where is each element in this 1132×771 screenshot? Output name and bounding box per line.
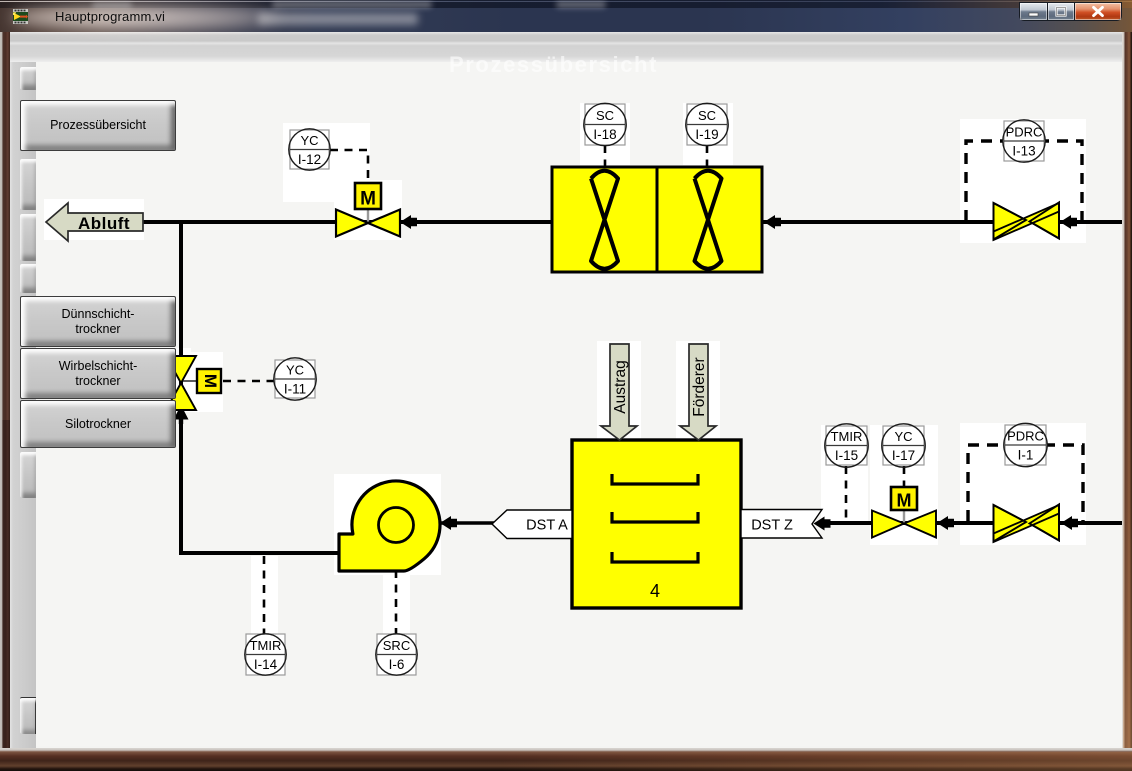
svg-text:M: M: [201, 374, 220, 388]
flag DST Z: [741, 510, 822, 539]
white backing patch M1 and valve V1: [334, 180, 402, 240]
white backing patch PDRC I-13 group: [960, 119, 1086, 243]
instrument SC I-19: [686, 103, 728, 145]
svg-text:I-11: I-11: [284, 382, 306, 397]
arrow Foerderer: [680, 344, 716, 440]
svg-text:I-18: I-18: [593, 127, 616, 142]
white backing patch PDRC I-1 group: [960, 423, 1086, 545]
svg-text:YC: YC: [300, 133, 318, 148]
svg-text:Austrag: Austrag: [612, 360, 629, 413]
LabVIEW VI icon: [13, 9, 28, 24]
svg-text:Förderer: Förderer: [691, 357, 708, 416]
white backing patch SRC I-6 dash: [383, 571, 410, 635]
svg-text:I-17: I-17: [892, 448, 915, 463]
signal dash loop PDRC I-1: [968, 445, 1083, 521]
motor M1: [355, 183, 381, 210]
button Prozessübersicht: [20, 100, 176, 151]
instrument PDRC I-13: [1003, 120, 1045, 162]
button Silotrockner: [20, 400, 176, 448]
instrument YC I-17: [882, 424, 925, 467]
junction arrow at valve V4 outlet: [937, 516, 954, 530]
nav button sliver hidden 3: [20, 214, 36, 261]
toolbar strip: [10, 32, 1122, 62]
grey panel column left: [10, 62, 36, 748]
blower B1: [339, 481, 440, 571]
svg-text:TMIR: TMIR: [250, 638, 282, 653]
button Wirbelschichttrockner: [20, 348, 176, 399]
nav button sliver hidden top: [20, 67, 36, 90]
junction arrow up below valve V3: [174, 405, 189, 424]
wire bottom left pipe: [179, 551, 340, 555]
white backing patch M3 motor left: [191, 352, 223, 412]
arrow Abluft: [46, 203, 143, 241]
svg-text:DST A: DST A: [526, 518, 568, 534]
svg-text:PDRC: PDRC: [1006, 125, 1043, 140]
white backing patch Austrag arrow: [597, 341, 641, 439]
white backing patch SC I-18: [580, 103, 630, 165]
valve V2 top right: [994, 203, 1060, 241]
junction arrow into heat exchanger: [764, 215, 781, 229]
motor link M3: [183, 380, 197, 382]
svg-text:SRC: SRC: [383, 638, 410, 653]
white backing patch left valve V3: [174, 348, 191, 412]
wire top pipe right segment: [760, 220, 1122, 224]
white backing patch TMIR I-15 column: [821, 425, 868, 522]
instrument PDRC I-1: [1004, 423, 1047, 466]
svg-text:I-1: I-1: [1018, 448, 1034, 463]
valve V5 bottom right: [994, 505, 1060, 543]
valve V1: [336, 210, 400, 237]
instrument TMIR I-15: [825, 424, 868, 467]
nav button sliver hidden bottom: [20, 697, 36, 734]
dryer T1 body: [572, 440, 741, 608]
signal dash SRC I-6: [395, 570, 398, 634]
junction arrow at valve V5 outlet: [1061, 516, 1078, 530]
svg-text:YC: YC: [286, 363, 304, 378]
svg-text:I-15: I-15: [835, 448, 858, 463]
svg-text:4: 4: [650, 581, 660, 601]
fan rotor symbol right E1: [695, 171, 722, 269]
button Dünnschichttrockner: [20, 296, 176, 347]
arrow Austrag: [601, 344, 637, 440]
signal dash YC I-17 to M2: [903, 466, 906, 486]
white backing patch YC I-12 group: [283, 123, 370, 202]
window control buttons: [1019, 2, 1122, 22]
white backing patch YC I-17 column: [870, 425, 938, 545]
nav button sliver hidden 2: [20, 159, 36, 210]
svg-text:SC: SC: [698, 108, 716, 123]
junction arrow at DST Z flag: [814, 517, 831, 531]
instrument YC I-11: [274, 358, 316, 400]
window borders: [0, 32, 10, 748]
signal dash TMIR I-15: [845, 466, 848, 521]
fan rotor symbol left E1: [591, 171, 618, 269]
svg-text:DST Z: DST Z: [751, 518, 793, 534]
instrument SRC I-6: [376, 634, 417, 675]
instrument YC I-12: [289, 129, 330, 170]
wire top pipe left segment: [143, 220, 554, 224]
svg-text:M: M: [897, 491, 912, 511]
nav button sliver hidden 5: [20, 452, 36, 498]
valve V4: [872, 511, 936, 538]
svg-text:I-19: I-19: [695, 127, 718, 142]
signal dash YC I-12 to M1: [330, 150, 368, 183]
white backing patch Abluft: [44, 199, 144, 240]
junction arrow into blower: [440, 516, 457, 530]
motor M3: [197, 369, 221, 393]
svg-text:I-6: I-6: [389, 657, 405, 672]
junction arrow at valve V1 outlet: [400, 215, 417, 229]
svg-text:SC: SC: [596, 108, 614, 123]
svg-text:I-14: I-14: [254, 657, 278, 672]
signal dash loop PDRC I-13: [966, 141, 1082, 221]
svg-text:PDRC: PDRC: [1007, 429, 1044, 444]
wire left vertical pipe: [179, 220, 183, 555]
svg-text:I-13: I-13: [1012, 144, 1035, 159]
signal dash SC I-19: [706, 145, 709, 166]
valve V3 vertical: [166, 356, 196, 410]
white backing patch Foerderer arrow: [676, 341, 720, 439]
nav button sliver hidden 4: [20, 264, 36, 293]
svg-text:M: M: [360, 189, 376, 210]
instrument TMIR I-14: [245, 634, 286, 675]
signal dash SC I-18: [604, 145, 607, 166]
title bar: [0, 0, 1132, 32]
signal dash M3 to YC I-11: [223, 380, 274, 383]
junction arrow at valve V2 outlet: [1060, 215, 1077, 229]
svg-text:I-12: I-12: [298, 152, 321, 167]
white backing patch SC I-19: [683, 103, 733, 165]
white backing patch blower B1: [334, 474, 441, 575]
instrument SC I-18: [584, 103, 626, 145]
white backing patch TMIR I-14 dash: [251, 556, 278, 635]
ghost heading Prozessübersicht: [449, 52, 658, 78]
motor M2: [891, 487, 917, 511]
svg-text:YC: YC: [894, 429, 912, 444]
motor stem M2: [903, 509, 905, 523]
signal dash TMIR I-14: [263, 556, 266, 634]
wire bottom right pipe: [826, 521, 1122, 525]
svg-text:Abluft: Abluft: [78, 214, 130, 233]
flag DST A: [492, 510, 572, 539]
heat exchanger E1 body: [552, 167, 762, 272]
svg-text:TMIR: TMIR: [831, 429, 863, 444]
wire blower inlet pipe: [440, 521, 494, 524]
motor stem M1: [367, 209, 369, 222]
